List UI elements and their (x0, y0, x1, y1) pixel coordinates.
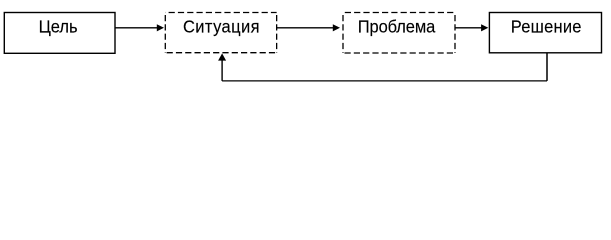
box Ситуация (165, 13, 276, 53)
box Решение (489, 13, 601, 53)
arrow Цель to Ситуация (115, 24, 164, 31)
svg-text:Проблема: Проблема (358, 16, 436, 37)
svg-text:Решение: Решение (511, 16, 582, 37)
svg-text:Цель: Цель (39, 16, 78, 37)
wire feedback bottom horizontal (222, 80, 547, 82)
svg-text:Ситуация: Ситуация (183, 16, 260, 37)
box Проблема (343, 13, 455, 54)
wire feedback up to Ситуация (221, 60, 223, 81)
arrow Проблема to Решение (455, 24, 488, 31)
wire feedback Решение down (546, 53, 548, 81)
arrowhead into Ситуация bottom (218, 53, 226, 60)
box Цель (4, 13, 115, 54)
arrow Ситуация to Проблема (277, 24, 340, 31)
